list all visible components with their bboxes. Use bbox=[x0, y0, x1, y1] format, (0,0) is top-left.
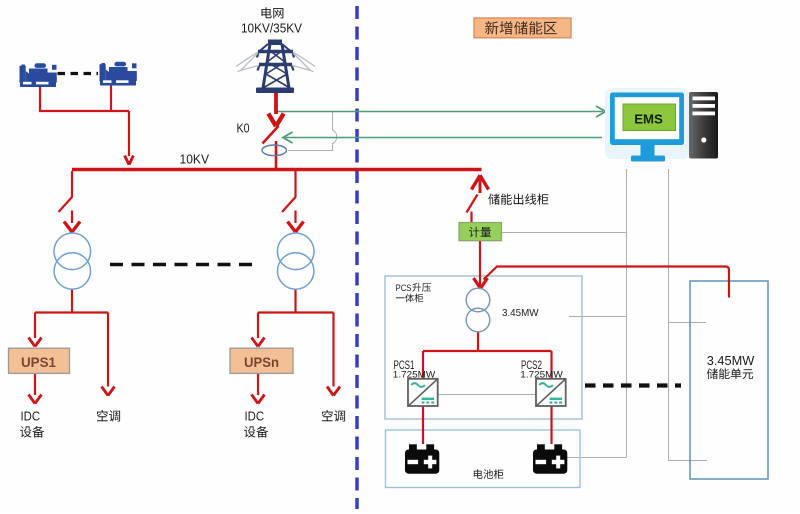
svg-text:1.725MW: 1.725MW bbox=[393, 370, 436, 380]
svg-text:10KV: 10KV bbox=[180, 153, 210, 167]
svg-text:3.45MW: 3.45MW bbox=[707, 353, 755, 368]
svg-text:3.45MW: 3.45MW bbox=[502, 307, 539, 319]
svg-text:EMS: EMS bbox=[634, 111, 663, 126]
svg-text:10KV/35KV: 10KV/35KV bbox=[241, 21, 303, 35]
svg-text:1.725MW: 1.725MW bbox=[520, 370, 563, 380]
svg-text:IDC: IDC bbox=[245, 410, 265, 424]
svg-text:K0: K0 bbox=[237, 121, 250, 135]
svg-text:UPS1: UPS1 bbox=[21, 354, 56, 370]
svg-text:UPSn: UPSn bbox=[244, 354, 279, 370]
svg-text:IDC: IDC bbox=[21, 410, 41, 424]
svg-text:PCS: PCS bbox=[396, 283, 412, 293]
